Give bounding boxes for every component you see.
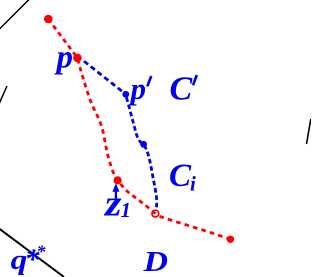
- blue arrow from z1 label to red point z1: [115, 189, 117, 202]
- red dashed curve through p, z1, junction: [48, 19, 155, 214]
- svg-text:C: C: [170, 71, 193, 108]
- blue dashed curve C' from p to p': [84, 61, 126, 94]
- red point at right end: [227, 236, 234, 243]
- boundary arc bottom-left (edge of domain D): [0, 229, 64, 277]
- svg-text:p: p: [128, 71, 147, 106]
- open red circle at junction of Ci and D boundary: [152, 210, 159, 217]
- svg-text:*: *: [37, 242, 47, 262]
- svg-text:C: C: [169, 158, 192, 194]
- svg-text:p: p: [54, 40, 74, 76]
- blue dashed curve Ci from p' through midpoint to junction: [127, 98, 157, 211]
- svg-text:D: D: [142, 246, 168, 277]
- blue point on Ci: [140, 141, 147, 148]
- red point at top: [44, 15, 53, 24]
- red point at p: [73, 54, 82, 63]
- svg-text:z: z: [103, 184, 122, 225]
- blue point at p': [122, 91, 129, 98]
- prime of p': [147, 76, 151, 86]
- svg-text:i: i: [190, 172, 196, 196]
- boundary arc left edge: [0, 86, 7, 104]
- boundary arc right edge: [307, 119, 311, 144]
- prime of C': [193, 75, 197, 85]
- red dashed segment junction to right endpoint: [160, 216, 231, 239]
- boundary arc top-left corner: [0, 0, 30, 30]
- svg-text:1: 1: [121, 198, 132, 222]
- red point at z1: [114, 176, 122, 184]
